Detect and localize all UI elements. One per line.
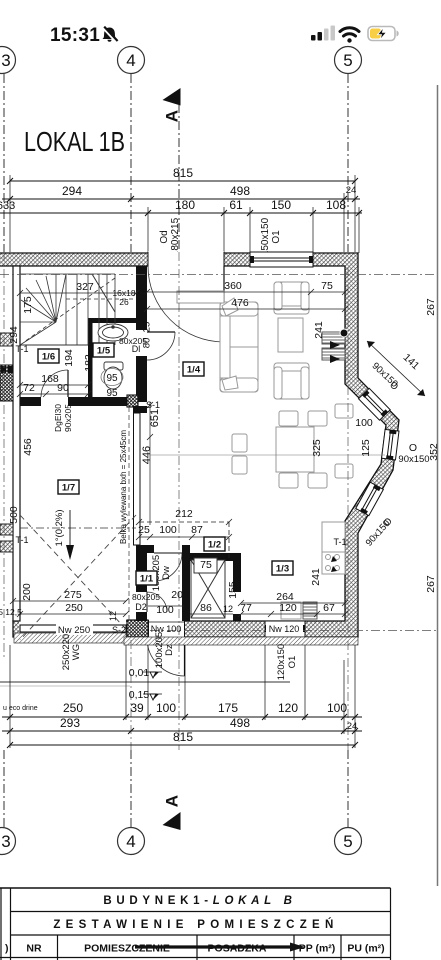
svg-text:180x215: 180x215 — [170, 217, 181, 256]
beam dashed garage — [128, 407, 130, 621]
svg-text:0,01: 0,01 — [129, 667, 150, 679]
dim line 293/498/24 — [2, 730, 362, 732]
svg-text:DgEl30: DgEl30 — [53, 404, 63, 432]
diagonal dim 141 — [367, 341, 425, 396]
fireplace radiator — [322, 329, 348, 363]
grid line 4 — [130, 74, 132, 252]
bathroom toilet — [104, 362, 123, 389]
svg-text:267: 267 — [425, 575, 437, 593]
hall bottom wall right part — [68, 397, 127, 406]
grid line 4 bottom — [130, 750, 132, 827]
utility 1/2 left wall — [182, 545, 190, 621]
svg-text:BUDYNEK1-LOKAL B: BUDYNEK1-LOKAL B — [103, 895, 296, 907]
bay window middle 90x150 — [382, 429, 399, 459]
svg-text:86: 86 — [200, 602, 212, 614]
svg-text:Belka wylewana bxh = 25x45cm: Belka wylewana bxh = 25x45cm — [119, 430, 128, 544]
svg-text:77: 77 — [240, 602, 252, 614]
sofa — [220, 298, 258, 392]
svg-text:180: 180 — [175, 198, 195, 212]
kitchen hob — [322, 552, 345, 574]
dim line 294/498/24 — [2, 198, 360, 200]
svg-text:15:31: 15:31 — [50, 25, 100, 46]
GRIDBOTTOM — [0, 750, 362, 855]
svg-text:264: 264 — [276, 591, 294, 603]
svg-text:5: 5 — [343, 832, 352, 851]
svg-text:633: 633 — [0, 200, 15, 212]
svg-text:1/6: 1/6 — [42, 352, 55, 363]
side chairs right — [335, 404, 353, 418]
svg-text:72: 72 — [23, 382, 35, 394]
svg-text:24: 24 — [347, 721, 358, 732]
DIMTOP — [0, 166, 362, 256]
svg-text:D2: D2 — [135, 602, 147, 612]
svg-text:651: 651 — [149, 409, 161, 427]
svg-text:125: 125 — [360, 439, 372, 457]
svg-text:S-2: S-2 — [112, 625, 126, 635]
svg-text:90: 90 — [57, 382, 69, 394]
svg-text:293: 293 — [60, 716, 80, 730]
svg-text:100: 100 — [156, 701, 176, 715]
svg-text:12: 12 — [223, 604, 233, 614]
svg-text:26: 26 — [119, 297, 129, 307]
signal bars — [311, 26, 335, 41]
garage X cross — [20, 515, 136, 640]
kitchen lower counter — [281, 602, 301, 619]
svg-text:815: 815 — [173, 166, 193, 180]
svg-text:WG: WG — [71, 644, 82, 660]
svg-text:Nw 120: Nw 120 — [269, 624, 300, 634]
FURNITURE — [177, 282, 353, 619]
table header row3 — [5, 943, 385, 955]
svg-text:498: 498 — [230, 716, 250, 730]
STATUSBAR — [50, 25, 399, 46]
svg-text:1/4: 1/4 — [187, 365, 201, 376]
svg-text:175: 175 — [22, 296, 34, 314]
svg-text:5: 5 — [343, 51, 352, 70]
wardrobe top right room — [177, 291, 224, 303]
svg-text:39: 39 — [130, 701, 144, 715]
svg-text:A: A — [163, 110, 182, 122]
svg-text:LOKAL 1B: LOKAL 1B — [24, 126, 125, 157]
svg-text:498: 498 — [230, 184, 250, 198]
window Nw120 — [265, 621, 305, 637]
svg-text:PU (m²): PU (m²) — [347, 943, 384, 955]
stair-hall divider — [20, 344, 88, 346]
svg-text:275: 275 — [64, 589, 82, 601]
armchair bottom — [274, 363, 309, 399]
svg-text:200: 200 — [21, 583, 33, 601]
svg-text:200: 200 — [171, 589, 189, 601]
svg-text:5 12,5: 5 12,5 — [0, 607, 22, 617]
svg-text:PP (m²): PP (m²) — [299, 943, 336, 955]
svg-text:95: 95 — [106, 373, 118, 384]
svg-text:294: 294 — [62, 184, 82, 198]
interior dim lines — [10, 289, 385, 617]
LABELSROT — [8, 284, 440, 680]
center wall bath-living upper — [136, 266, 147, 330]
dim line 250/39/100/175/120/100 — [2, 716, 362, 718]
garage door Nw250 opening — [19, 620, 126, 638]
left edge dark blocks — [0, 365, 13, 401]
section line A top — [178, 104, 180, 252]
exterior wall band with bay — [0, 253, 399, 637]
level marker 0.15 — [150, 694, 156, 700]
svg-text:1/1: 1/1 — [140, 574, 154, 585]
bathroom sink — [98, 324, 128, 341]
svg-text:815: 815 — [173, 730, 193, 744]
vestibule top wall stub — [147, 545, 154, 553]
svg-text:100: 100 — [355, 417, 373, 429]
bubble 5 — [335, 47, 362, 74]
dining chairs left — [232, 434, 247, 452]
svg-text:1/3: 1/3 — [276, 564, 289, 575]
svg-text:61: 61 — [229, 198, 243, 212]
bubble 4 — [118, 47, 145, 74]
svg-text:O1: O1 — [271, 230, 282, 244]
svg-text:1°(0,2%): 1°(0,2%) — [54, 509, 65, 546]
svg-text:456: 456 — [22, 438, 34, 456]
battery icon — [368, 27, 399, 41]
svg-text:ZESTAWIENIE POMIESZCZEŃ: ZESTAWIENIE POMIESZCZEŃ — [53, 918, 338, 931]
bathroom top wall — [88, 318, 136, 323]
svg-text:446: 446 — [141, 446, 153, 464]
dim line 815 bottom — [10, 744, 355, 746]
svg-text:80: 80 — [142, 338, 153, 349]
chimney S-1 — [127, 395, 138, 407]
WALLS — [0, 252, 399, 677]
kitchen-corridor wall — [233, 553, 241, 592]
svg-text:O1: O1 — [287, 656, 298, 669]
bathroom door Dl leaf/arc — [147, 331, 175, 333]
svg-text:4: 4 — [126, 832, 135, 851]
entry door Dz opening — [149, 620, 185, 638]
svg-text:360: 360 — [224, 280, 242, 292]
svg-text:T-1: T-1 — [333, 537, 346, 547]
door DgEl30 leaf/arc — [67, 370, 69, 397]
svg-text:241: 241 — [310, 568, 322, 586]
door Od leaf and arc — [223, 266, 225, 342]
svg-text:O: O — [409, 442, 417, 454]
utility X-box — [191, 558, 225, 618]
svg-text:150x150: 150x150 — [260, 217, 271, 256]
svg-text:1/5: 1/5 — [97, 346, 111, 357]
svg-text:212: 212 — [175, 508, 193, 520]
dining chairs bottom — [279, 473, 298, 488]
grid line 5 bottom — [347, 750, 349, 827]
sill hatch bottom right — [124, 637, 358, 645]
svg-text:95: 95 — [106, 388, 118, 399]
svg-text:120: 120 — [279, 602, 297, 614]
dim line 633/180/61/150/108 — [0, 212, 362, 214]
svg-text:4: 4 — [126, 51, 135, 70]
dining chairs top — [279, 411, 298, 426]
DIMBOTTOM — [2, 645, 362, 748]
center wall bath-living lower — [136, 356, 147, 402]
svg-text:294: 294 — [8, 326, 20, 344]
svg-text:241: 241 — [313, 321, 325, 339]
svg-text:327: 327 — [76, 281, 94, 293]
stairs treads — [20, 274, 135, 345]
svg-text:75: 75 — [321, 280, 333, 292]
INTERIOR — [0, 266, 290, 700]
coffee table — [278, 318, 303, 352]
bubble 4 bottom — [118, 828, 145, 855]
bubble 3 bottom — [0, 828, 16, 855]
svg-text:325: 325 — [311, 439, 323, 457]
svg-text:250: 250 — [63, 701, 83, 715]
svg-text:352: 352 — [428, 443, 440, 461]
svg-text:87: 87 — [191, 524, 203, 536]
svg-text:120x150: 120x150 — [276, 644, 287, 680]
svg-text:NR: NR — [26, 943, 42, 955]
section marker A triangle bottom — [163, 812, 181, 830]
table outer lines — [0, 888, 391, 960]
bay window upper diagonal 90x150 — [358, 388, 390, 420]
svg-text:100: 100 — [327, 701, 347, 715]
svg-text:100: 100 — [159, 524, 177, 536]
dim line 815 top — [10, 180, 355, 182]
right page edge — [437, 85, 439, 886]
section marker A triangle top — [163, 88, 181, 106]
bubble 5 bottom — [335, 828, 362, 855]
svg-text:150: 150 — [271, 198, 291, 212]
svg-text:Dz: Dz — [164, 644, 175, 656]
door Dw leaf/arc — [154, 552, 182, 554]
garage right wall upper — [133, 406, 147, 413]
bay window lower diagonal 90x150 — [356, 482, 384, 516]
svg-text:T-1: T-1 — [15, 344, 28, 354]
svg-text:T-1: T-1 — [15, 535, 28, 545]
svg-text:0,15: 0,15 — [129, 689, 150, 701]
sill hatch under garage door — [14, 633, 126, 643]
svg-text:S-1: S-1 — [146, 400, 160, 410]
svg-text:90x150: 90x150 — [398, 454, 429, 465]
bubble 3 — [0, 47, 16, 74]
left edge stub T-1 zone — [0, 333, 13, 346]
kitchen counter right — [322, 522, 345, 552]
svg-text:67: 67 — [323, 602, 335, 614]
svg-text:250: 250 — [65, 602, 83, 614]
dining table — [276, 427, 314, 472]
svg-text:1/7: 1/7 — [62, 483, 75, 494]
extension lines — [10, 175, 359, 253]
garage right wall thin middle — [134, 413, 141, 545]
left party wall — [13, 266, 20, 621]
svg-text:3: 3 — [1, 832, 10, 851]
svg-text:12: 12 — [108, 611, 118, 621]
grid line 3 — [3, 74, 5, 252]
svg-text:25: 25 — [138, 524, 150, 536]
svg-text:Dl: Dl — [132, 344, 141, 354]
utility top wall — [190, 553, 241, 561]
wifi icon — [340, 28, 359, 43]
svg-text:476: 476 — [231, 297, 249, 309]
grid line 5 — [347, 74, 349, 252]
chimney S-2 — [127, 620, 148, 637]
svg-text:Dw: Dw — [161, 566, 172, 580]
muted bell icon — [103, 27, 118, 42]
svg-text:108: 108 — [326, 198, 346, 212]
svg-text:90x205: 90x205 — [63, 404, 73, 432]
svg-text:u eco drine: u eco drine — [3, 705, 38, 712]
armchair top — [274, 282, 309, 314]
garage right wall lower — [136, 545, 147, 592]
svg-text:1/2: 1/2 — [208, 540, 221, 551]
extension lines bottom — [10, 645, 355, 748]
garage slab dash-dot — [20, 527, 136, 529]
grid line 3 bottom — [3, 750, 5, 827]
svg-text:194: 194 — [63, 349, 75, 367]
level line terrace — [0, 681, 290, 683]
bathroom left wall — [88, 318, 93, 402]
strike line with arrow — [135, 945, 293, 948]
svg-text:120: 120 — [278, 701, 298, 715]
door Dz leaf and arc — [184, 638, 186, 676]
door D2 arc — [147, 592, 167, 612]
svg-text:): ) — [5, 943, 9, 955]
door Od opening — [148, 252, 224, 268]
svg-text:100: 100 — [137, 284, 149, 302]
svg-text:500: 500 — [8, 506, 20, 524]
svg-text:75: 75 — [200, 559, 212, 571]
svg-text:3: 3 — [1, 51, 10, 70]
svg-text:175: 175 — [218, 701, 238, 715]
svg-text:100: 100 — [156, 604, 174, 616]
window O1 150x150 — [250, 252, 313, 267]
svg-text:155: 155 — [227, 581, 239, 599]
grid dashdot through plan — [0, 252, 437, 750]
ROOMBOXES — [38, 343, 293, 585]
svg-text:A: A — [163, 795, 182, 807]
TABLE — [0, 888, 391, 960]
slope arrow garage — [69, 510, 71, 548]
svg-text:25: 25 — [142, 322, 153, 333]
hall bottom wall left part — [20, 397, 41, 406]
level marker 0.01 — [150, 672, 156, 678]
svg-text:Od: Od — [159, 230, 170, 243]
svg-text:267: 267 — [425, 298, 437, 316]
svg-text:80x205: 80x205 — [132, 592, 160, 602]
